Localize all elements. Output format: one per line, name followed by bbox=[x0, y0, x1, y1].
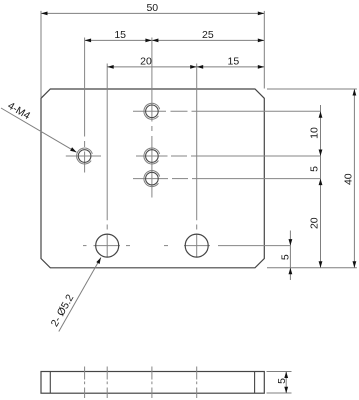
side view centerline x=84.6 bbox=[84, 367, 86, 399]
hole 5.2 bottom-right bbox=[185, 234, 208, 257]
svg-text:15: 15 bbox=[114, 29, 126, 41]
svg-text:20: 20 bbox=[140, 56, 152, 68]
extension lines side view (for 5) bbox=[267, 372, 292, 394]
dimension 15 (row3 right) bbox=[197, 56, 265, 69]
extension line top edge right (for 40) bbox=[267, 88, 357, 90]
dimension 25 (row2 right) bbox=[152, 29, 264, 43]
svg-text:25: 25 bbox=[202, 29, 214, 41]
svg-text:5: 5 bbox=[308, 166, 320, 172]
centerline vertical through bottom-left hole bbox=[106, 64, 108, 258]
leader 2-dia5.2 bbox=[49, 258, 101, 332]
dimension 50 bbox=[41, 2, 264, 15]
extension line bottom edge right (for 40/20/5) bbox=[267, 267, 357, 269]
leader 4-M4 bbox=[1, 100, 77, 153]
dimension 40 (far right, vertical) bbox=[343, 89, 357, 268]
centerline vertical through left hole bbox=[84, 38, 86, 173]
centerline horizontal hole row y=111.3 bbox=[133, 110, 321, 112]
side view body bbox=[41, 372, 264, 394]
side view centerline x=151.9 bbox=[151, 367, 153, 399]
dimension 20 (right, vertical) bbox=[308, 217, 322, 268]
svg-text:15: 15 bbox=[228, 56, 240, 68]
dimension 15 (row2 left) bbox=[85, 29, 152, 43]
side view chamfer edge left bbox=[49, 372, 51, 394]
side view centerline x=196.7 bbox=[196, 367, 198, 399]
svg-text:5: 5 bbox=[279, 254, 291, 260]
svg-text:2- Ø5.2: 2- Ø5.2 bbox=[49, 292, 77, 329]
svg-text:50: 50 bbox=[146, 2, 158, 14]
centerline horizontal bottom hole row y=245.6 bbox=[83, 245, 290, 247]
centerline horizontal hole row y=178.6 bbox=[133, 178, 321, 180]
hole M4 lower center bbox=[144, 171, 160, 187]
hole M4 middle center bbox=[144, 148, 160, 164]
dimension 5 (bottom right of top view) bbox=[279, 231, 292, 281]
side view centerline x=107.2 bbox=[106, 367, 108, 399]
centerline vertical through bottom-right hole bbox=[196, 64, 198, 258]
dimension 5 (side view thickness) bbox=[276, 372, 288, 394]
hole 5.2 bottom-left bbox=[96, 234, 119, 257]
svg-text:5: 5 bbox=[276, 378, 288, 384]
dimension 10 (right, vertical) bbox=[308, 105, 322, 268]
side view chamfer edge right bbox=[254, 372, 256, 394]
extension line right edge (for 50/25/15) bbox=[263, 11, 265, 89]
dimension 5 (right, vertical) bbox=[308, 166, 322, 185]
centerline vertical through center holes bbox=[151, 38, 153, 198]
dimension 20 (row3 left) bbox=[107, 56, 197, 69]
hole M4 left bbox=[77, 148, 93, 164]
centerline horizontal hole row y=156 bbox=[66, 155, 321, 157]
extension line left edge (for 50) bbox=[40, 11, 42, 98]
svg-text:40: 40 bbox=[343, 173, 355, 185]
svg-text:20: 20 bbox=[308, 217, 320, 229]
hole M4 top center bbox=[144, 103, 160, 119]
svg-text:10: 10 bbox=[308, 127, 320, 139]
plate outline (top view) bbox=[41, 89, 264, 268]
